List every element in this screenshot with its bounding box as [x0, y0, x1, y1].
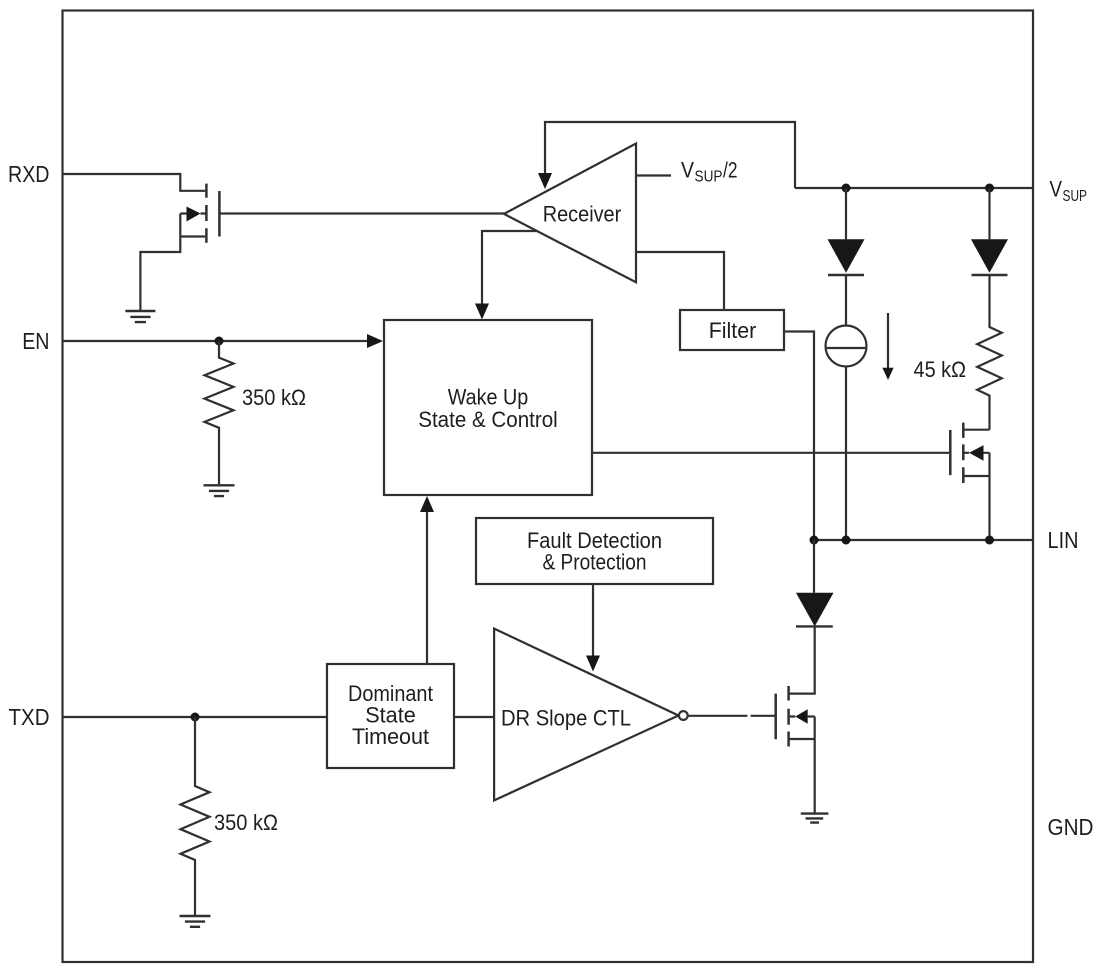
block Fault Detection & Protection — [476, 518, 713, 584]
wire VSUP to diode D1 — [845, 188, 847, 239]
wire Wake Up output to Q2 gate — [592, 452, 949, 454]
wire VSUP feedback to receiver — [545, 122, 795, 188]
wire RXD to Q1 drain — [63, 174, 206, 191]
node LIN junction 3 — [985, 536, 994, 545]
ground (Q3 source) — [801, 814, 829, 823]
wire LIN to diode D3 — [813, 540, 815, 593]
arrowhead onto slope control triangle — [586, 656, 600, 672]
node EN junction — [215, 337, 224, 346]
op-amp U1 Receiver — [504, 144, 636, 283]
svg-text:350 kΩ: 350 kΩ — [242, 385, 306, 410]
block Dominant State Timeout — [327, 664, 454, 768]
wire current source to LIN — [845, 367, 847, 541]
block Wake Up State & Control — [384, 320, 592, 495]
svg-text:Receiver: Receiver — [543, 202, 622, 227]
current direction arrow — [882, 313, 893, 380]
wire VSUP/2 stub — [636, 174, 671, 176]
node VSUP junction 2 — [985, 184, 994, 193]
wire Dominant block to Wake Up — [426, 512, 428, 664]
transistor Q2 (high-side switch) — [950, 423, 963, 483]
wire Q3 drain to diode D3 — [790, 628, 815, 694]
svg-text:45 kΩ: 45 kΩ — [914, 357, 967, 382]
transistor Q1 body arrow — [187, 207, 201, 222]
label VSUP/2 — [681, 158, 738, 186]
svg-text:& Protection: & Protection — [543, 550, 647, 575]
wire Q2 drain to 45k resistor — [964, 429, 989, 431]
svg-text:Wake Up: Wake Up — [448, 385, 529, 410]
arrowhead EN into Wake Up — [367, 334, 383, 348]
svg-text:SUP: SUP — [695, 169, 723, 186]
arrowhead into Wake Up top — [475, 304, 489, 320]
svg-text:EN: EN — [22, 328, 49, 354]
node LIN junction 1 — [810, 536, 819, 545]
svg-text:Filter: Filter — [709, 318, 757, 343]
wire D1 to current source — [845, 275, 847, 326]
diode D2 — [971, 239, 1008, 275]
wire receiver output to Filter — [636, 252, 724, 310]
wire VSUP rail — [795, 187, 1033, 189]
resistor 350 kOhm (TXD pulldown) — [181, 717, 210, 916]
svg-text:TXD: TXD — [9, 704, 50, 730]
wire EN to Wake Up block — [63, 340, 369, 342]
transistor Q3 (LIN driver) — [776, 686, 789, 747]
block Filter — [680, 310, 784, 350]
svg-text:V: V — [1050, 177, 1063, 202]
wire Filter output to LIN — [784, 332, 814, 541]
svg-text:State & Control: State & Control — [418, 407, 558, 432]
wire Q3 body and source to ground — [790, 717, 815, 814]
ground (EN resistor) — [204, 485, 235, 496]
transistor Q1 (RXD output MOSFET) — [206, 184, 219, 243]
svg-text:350 kΩ: 350 kΩ — [214, 810, 278, 835]
wire Dominant block to slope control — [454, 716, 494, 718]
svg-text:/2: /2 — [723, 158, 738, 183]
current source CS1 — [826, 326, 867, 367]
resistor 45 kOhm — [977, 275, 1002, 430]
wire receiver to Wake Up block — [482, 231, 538, 304]
diode D1 — [828, 239, 865, 275]
buffer DR Slope CTL — [494, 629, 678, 801]
transistor Q2 body arrow — [969, 445, 983, 460]
node LIN junction 2 — [842, 536, 851, 545]
wire slope control output to Q3 gate — [688, 715, 774, 717]
ground (TXD resistor) — [180, 916, 211, 927]
svg-text:Timeout: Timeout — [352, 724, 429, 749]
wire Q1 source/body to ground — [140, 214, 206, 312]
transistor Q3 body arrow — [795, 709, 807, 723]
svg-text:SUP: SUP — [1063, 188, 1088, 205]
pin VSUP — [1050, 177, 1088, 206]
arrowhead into Wake Up bottom — [420, 496, 434, 512]
inverter bubble — [679, 711, 688, 720]
wire Q2 body and source to LIN — [964, 453, 989, 540]
svg-text:V: V — [681, 158, 694, 183]
svg-text:GND: GND — [1048, 814, 1094, 840]
wire LIN rail — [814, 539, 1033, 541]
wire TXD to Dominant State Timeout — [63, 716, 328, 718]
ground (Q1 source) — [125, 311, 155, 322]
node TXD junction — [191, 713, 200, 722]
resistor 350 kOhm (EN pulldown) — [205, 341, 234, 485]
wire Q1 gate to receiver output — [221, 212, 505, 214]
node VSUP junction 1 — [842, 184, 851, 193]
wire VSUP to diode D2 — [988, 188, 990, 239]
wire Fault block to slope control — [592, 584, 594, 656]
arrowhead onto receiver top edge — [538, 173, 552, 189]
svg-text:LIN: LIN — [1048, 527, 1079, 553]
svg-text:RXD: RXD — [8, 161, 50, 187]
svg-text:DR Slope CTL: DR Slope CTL — [501, 706, 631, 731]
diode D3 — [796, 593, 834, 627]
